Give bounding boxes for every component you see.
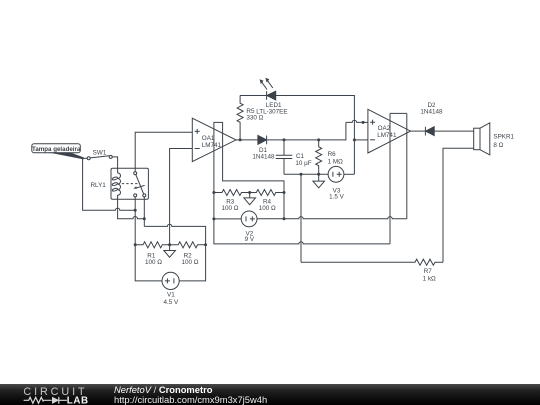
wire V2 left lead xyxy=(214,218,241,220)
svg-text:10 µF: 10 µF xyxy=(295,160,311,167)
wire speaker bottom to R7 xyxy=(443,148,474,262)
svg-text:1 kΩ: 1 kΩ xyxy=(423,275,436,282)
wire C1 bottom to V3 xyxy=(284,173,328,175)
svg-text:Tampa geladeira: Tampa geladeira xyxy=(32,146,81,153)
svg-text:100 Ω: 100 Ω xyxy=(145,259,162,266)
node V2 plus junction xyxy=(283,217,286,220)
resistor R7 xyxy=(301,259,443,282)
wire D2 to speaker xyxy=(434,130,474,132)
wire OA1 - input down to R1/R2 midpoint xyxy=(170,149,193,245)
svg-text:1N4148: 1N4148 xyxy=(252,153,275,160)
label Tampa geladeira callout xyxy=(32,144,84,160)
node relay coil-NO junction xyxy=(143,217,146,220)
op-amp OA2 xyxy=(368,109,411,153)
ground between R3 and R4 xyxy=(244,193,256,205)
node R2 right junction xyxy=(204,243,207,246)
wire OA2 output to D2 xyxy=(411,130,426,132)
wire relay switched contact up to OA1 + input xyxy=(135,132,192,172)
wire V2 to OA2 staple (with hops) xyxy=(257,217,407,219)
wire V1 right xyxy=(179,245,205,281)
svg-text:R7: R7 xyxy=(424,268,433,275)
relay switch contacts xyxy=(134,172,137,175)
voltage source V3 xyxy=(328,166,345,200)
svg-text:1 MΩ: 1 MΩ xyxy=(328,158,343,165)
wire D1 to OA2 + input (with hop over vertical) xyxy=(267,120,368,140)
wire OA1 output to D1 xyxy=(236,139,258,141)
svg-text:100 Ω: 100 Ω xyxy=(222,205,239,212)
wire OA2 V+ staple xyxy=(390,113,407,244)
svg-text:SW1: SW1 xyxy=(93,149,107,156)
op-amp OA1 xyxy=(192,118,236,161)
svg-text:9 V: 9 V xyxy=(245,236,255,243)
resistor R1 xyxy=(135,242,169,266)
svg-text:SPKR1: SPKR1 xyxy=(493,134,514,141)
svg-text:http://circuitlab.com/cmx9m3x7: http://circuitlab.com/cmx9m3x7j5w4h xyxy=(114,394,267,405)
svg-text:8 Ω: 8 Ω xyxy=(493,142,503,149)
wire R5 top to LED1 xyxy=(240,95,267,97)
bottom bar xyxy=(0,384,540,405)
LED LED1 xyxy=(256,78,287,116)
node V2 minus junction xyxy=(212,217,215,220)
node C1 top junction xyxy=(283,138,286,141)
resistor R2 xyxy=(170,242,206,266)
ground between R1 and R2 xyxy=(164,245,176,257)
svg-text:100 Ω: 100 Ω xyxy=(259,205,276,212)
switch SW1 xyxy=(83,149,112,159)
node R1 left junction xyxy=(134,243,137,246)
node C1 bottom junction xyxy=(300,173,303,176)
CircuitLab logo xyxy=(23,386,88,405)
node R6 top junction xyxy=(317,138,320,141)
resistor R6 xyxy=(316,140,343,174)
node R3 left junction xyxy=(212,191,215,194)
wire relay common down to R1 node xyxy=(134,197,136,245)
node R1/R2 midpoint junction xyxy=(168,243,171,246)
speaker SPKR1 xyxy=(474,123,515,155)
wire OA1 V+ staple to R3/R4 and V2 nets xyxy=(214,122,284,218)
wire SW1 left node to relay common (down and right) xyxy=(83,158,136,210)
wire LED1 to OA2 side vertical xyxy=(276,96,355,175)
wire relay NO contact down to R2 right node xyxy=(143,197,145,227)
node OA1 output / R5 junction xyxy=(239,138,242,141)
svg-text:100 Ω: 100 Ω xyxy=(182,259,199,266)
diode D1 xyxy=(252,136,275,161)
relay coil xyxy=(118,168,121,199)
diode D2 xyxy=(420,102,443,136)
wire OA2 - input xyxy=(354,139,368,141)
svg-text:1.5 V: 1.5 V xyxy=(329,193,345,200)
svg-text:RLY1: RLY1 xyxy=(91,182,107,189)
wire SW1 to relay coil top xyxy=(112,157,117,168)
resistor R3 xyxy=(214,190,250,213)
svg-text:R6: R6 xyxy=(328,151,337,158)
node R3/R4 midpoint junction xyxy=(248,191,251,194)
wire relay coil bottom to node xyxy=(118,199,145,218)
node R4 right junction xyxy=(283,191,286,194)
svg-text:LTL-307EE: LTL-307EE xyxy=(256,109,287,116)
resistor R4 xyxy=(250,190,284,213)
node R6 bottom / ground junction xyxy=(317,173,320,176)
node relay common / SW1 junction xyxy=(134,209,137,212)
wire C1 bottom node down to R7 line xyxy=(300,174,302,262)
relay RLY1 xyxy=(91,168,149,199)
svg-text:V1: V1 xyxy=(167,292,175,299)
svg-text:1N4148: 1N4148 xyxy=(420,108,443,115)
node OA2 minus input junction xyxy=(353,138,356,141)
wire V3 right up to OA2 - node xyxy=(344,173,355,175)
voltage source V2 xyxy=(241,211,257,243)
voltage source V1 xyxy=(162,272,179,306)
svg-text:LM741: LM741 xyxy=(202,142,222,149)
wire V1 left xyxy=(135,245,162,281)
ground under R6 xyxy=(313,174,325,188)
capacitor C1 xyxy=(276,140,312,174)
node OA2 plus input junction xyxy=(362,121,365,124)
relay dashed link xyxy=(122,183,138,185)
svg-text:LAB: LAB xyxy=(67,396,89,405)
resistor R5 xyxy=(237,96,264,140)
svg-text:LM741: LM741 xyxy=(377,132,397,139)
svg-text:4.5 V: 4.5 V xyxy=(164,299,180,306)
